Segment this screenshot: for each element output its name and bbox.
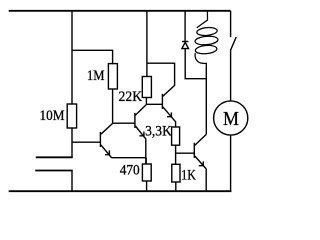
wire 1M bottom to node A <box>112 89 114 123</box>
wire top rail <box>9 10 231 12</box>
transistor Q4 bar <box>193 143 195 158</box>
transistor Q3 emitter <box>163 107 176 122</box>
inductor L1 loop 3 <box>195 45 217 55</box>
wire Q4 collector riser <box>205 67 207 135</box>
diode D1 bottom wire <box>185 49 206 79</box>
transistor Q1 emitter <box>101 145 112 158</box>
resistor R 1M box <box>108 64 117 89</box>
motor M1 bottom wire <box>230 135 232 191</box>
wire Q1 emitter run <box>111 157 146 159</box>
svg-text:10M: 10M <box>40 108 65 124</box>
transistor Q3 bar <box>161 94 163 109</box>
wire 10M bottom to stub <box>71 128 73 157</box>
transistor Q1 emitter arrow <box>105 150 110 154</box>
inductor L1 relay coil feed <box>197 11 208 28</box>
wire bottom rail <box>9 190 232 192</box>
motor M1 circle <box>214 101 248 135</box>
transistor Q4 emitter <box>195 156 207 169</box>
transistor Q1 base wire <box>72 141 100 143</box>
wire Q4 emitter to ground <box>205 169 207 191</box>
wire 22K column from rail <box>146 11 148 77</box>
resistor R 10M box <box>67 104 76 128</box>
resistor R 22K box <box>142 77 151 98</box>
transistor Q4 base wire <box>176 152 195 154</box>
transistor Q3 emitter arrow <box>167 112 172 116</box>
svg-text:3,3K: 3,3K <box>145 123 172 139</box>
diode D1 triangle <box>182 42 189 48</box>
transistor Q4 emitter arrow <box>199 161 204 165</box>
svg-text:470: 470 <box>120 162 140 178</box>
wire left column x=72 top <box>71 11 73 105</box>
svg-text:1M: 1M <box>87 68 105 84</box>
wire touch plate stub 2 <box>35 170 72 172</box>
wire stub 2 to ground rail <box>71 171 73 192</box>
wire node A to T2 base <box>113 122 135 124</box>
wire 470 top <box>145 158 147 164</box>
transistor Q2 emitter <box>135 126 145 139</box>
transistor Q2 bar <box>134 113 136 128</box>
switch S1 lever <box>231 37 236 50</box>
resistor R 470 box <box>142 164 151 181</box>
svg-text:22K: 22K <box>119 89 143 105</box>
inductor L1 exit hook <box>195 53 206 67</box>
wire bridge to T3 base <box>146 103 162 105</box>
svg-text:1K: 1K <box>181 168 196 184</box>
transistor Q1 collector <box>101 123 113 134</box>
switch S1 top lead <box>230 11 232 37</box>
wire branch to T3 collector <box>147 63 175 85</box>
transistor Q1 bar <box>99 132 101 147</box>
resistor R 3.3K box <box>172 127 180 145</box>
svg-text:M: M <box>223 108 239 130</box>
inductor L1 loop 2 <box>195 35 219 45</box>
wire 470 bottom <box>146 181 148 191</box>
wire branch to 1M top <box>72 50 113 64</box>
diode D1 top wire <box>184 11 186 42</box>
transistor Q2 collector <box>135 105 146 116</box>
wire 3.3K bottom column <box>175 145 177 164</box>
diode D1 cathode bar <box>182 41 188 43</box>
resistor R 1K box <box>172 164 180 182</box>
wire 22K bottom <box>145 98 147 105</box>
wire Q3 emitter to 3.3K <box>175 121 177 127</box>
transistor Q2 emitter arrow <box>139 132 144 136</box>
switch S1 bottom lead <box>230 49 232 101</box>
transistor Q4 collector <box>195 134 207 145</box>
wire touch plate stub 1 <box>36 156 73 158</box>
wire Q2 emitter to 470 <box>145 139 147 164</box>
wire 1K bottom <box>175 182 177 191</box>
inductor L1 loop 1 <box>196 27 217 37</box>
transistor Q3 collector <box>163 85 175 96</box>
